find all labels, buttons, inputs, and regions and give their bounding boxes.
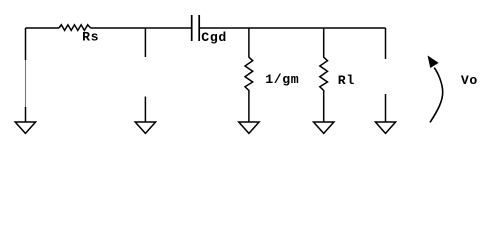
svg-text:Rl: Rl xyxy=(338,73,355,88)
ground under Rl xyxy=(314,122,334,133)
ground right xyxy=(375,94,395,133)
wire left vertical thin net xyxy=(25,60,27,107)
wire top-left horizontal xyxy=(26,27,60,29)
svg-text:1/gm: 1/gm xyxy=(265,72,299,87)
resistor 1/gm xyxy=(245,28,253,122)
svg-text:Vo: Vo xyxy=(461,73,478,88)
ground under 1/gm xyxy=(239,122,259,133)
resistor Rs xyxy=(59,25,91,31)
wire right vertical stub xyxy=(385,28,387,59)
svg-text:Rs: Rs xyxy=(82,30,99,45)
wire left vertical xyxy=(25,28,27,60)
wire capacitor to right corner xyxy=(199,27,385,29)
ground left xyxy=(15,107,35,133)
svg-text:Cgd: Cgd xyxy=(201,30,227,45)
resistor Rl xyxy=(320,28,328,122)
wire stub node gate xyxy=(144,28,146,57)
capacitor Cgd xyxy=(192,15,200,41)
wire Rs to capacitor xyxy=(91,27,191,29)
ground under stub xyxy=(135,97,155,134)
Vo arrow curved xyxy=(428,57,442,123)
